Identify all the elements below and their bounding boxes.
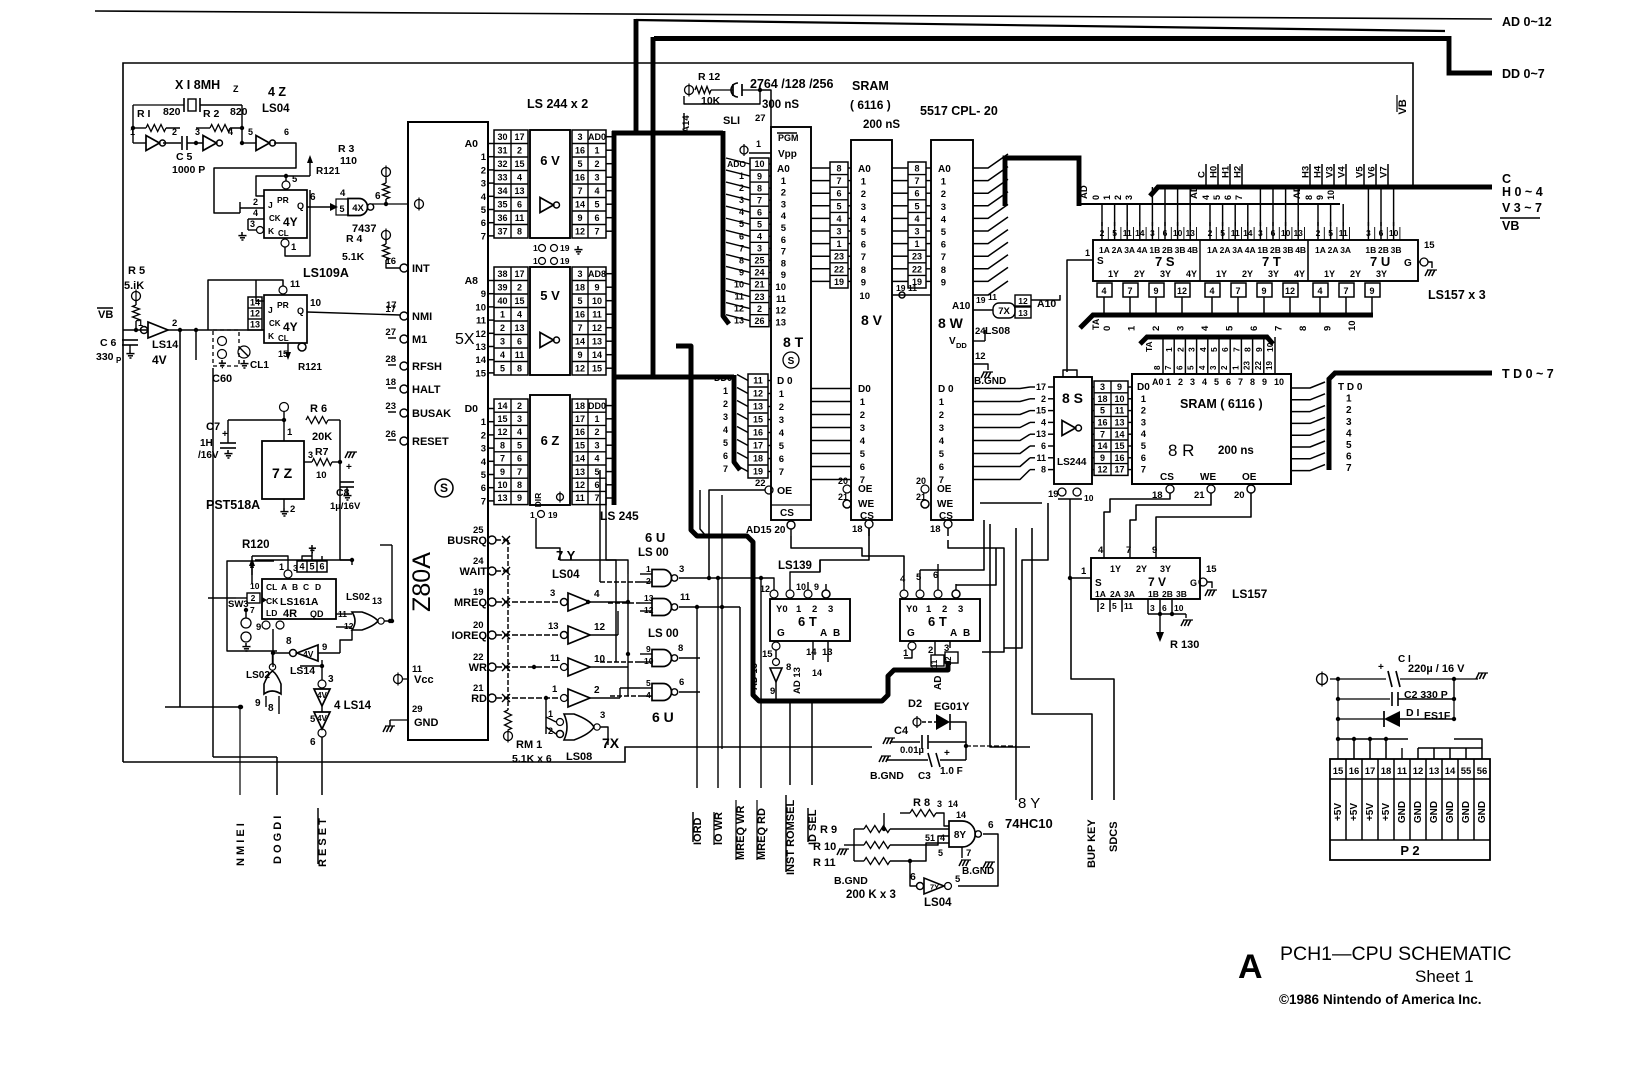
svg-text:1: 1 <box>1081 566 1087 577</box>
svg-text:2: 2 <box>939 410 944 421</box>
svg-text:15: 15 <box>762 649 773 660</box>
svg-text:4B: 4B <box>1187 245 1198 255</box>
svg-text:8: 8 <box>678 643 683 654</box>
svg-text:6: 6 <box>861 240 866 251</box>
svg-text:1: 1 <box>481 152 487 163</box>
svg-text:17: 17 <box>1036 382 1046 392</box>
svg-text:6: 6 <box>517 336 522 346</box>
svg-text:2: 2 <box>517 282 522 292</box>
inverter 7Y ioreq <box>496 634 560 636</box>
svg-text:3A: 3A <box>1340 245 1351 255</box>
LS161 load/clk wires <box>252 556 288 570</box>
bus TD0~7 thick <box>1329 373 1492 470</box>
svg-text:D 0: D 0 <box>938 384 954 395</box>
power rail wires <box>1337 679 1339 759</box>
svg-text:3: 3 <box>517 414 522 424</box>
svg-text:LS04: LS04 <box>552 569 580 581</box>
svg-text:7: 7 <box>1274 326 1285 331</box>
resistor R12 10K <box>685 86 694 95</box>
8T pin 1 Vpp <box>740 146 748 154</box>
svg-text:3Y: 3Y <box>1376 269 1387 279</box>
capacitor C60 <box>213 330 239 366</box>
svg-text:X I 8MH: X I 8MH <box>175 78 220 92</box>
svg-text:LS04: LS04 <box>262 103 290 115</box>
gate 4X 7437 <box>336 199 348 215</box>
svg-text:QD: QD <box>310 609 324 619</box>
svg-text:B: B <box>963 628 970 639</box>
svg-text:6: 6 <box>836 189 841 199</box>
svg-text:2: 2 <box>941 189 946 200</box>
svg-text:6: 6 <box>779 454 784 465</box>
svg-text:2A: 2A <box>1112 245 1123 255</box>
svg-text:C: C <box>303 582 309 592</box>
svg-text:19: 19 <box>753 467 763 477</box>
svg-text:4: 4 <box>1200 325 1211 331</box>
svg-text:6: 6 <box>939 462 944 473</box>
svg-text:12: 12 <box>1413 766 1424 777</box>
svg-text:5: 5 <box>739 219 744 229</box>
svg-text:4 Z: 4 Z <box>268 85 286 99</box>
svg-text:M1: M1 <box>412 334 427 346</box>
svg-text:8 Y: 8 Y <box>1018 795 1040 812</box>
connector P2 <box>1330 759 1490 860</box>
svg-text:2: 2 <box>172 127 177 137</box>
IC 6T decoder 1 <box>770 599 850 641</box>
resistor R121 arrow <box>309 162 311 176</box>
svg-text:3: 3 <box>1124 195 1134 200</box>
svg-text:10: 10 <box>1084 493 1094 503</box>
svg-text:7: 7 <box>836 176 841 186</box>
svg-text:37: 37 <box>497 226 507 236</box>
svg-text:2: 2 <box>860 410 865 421</box>
svg-text:S: S <box>1097 256 1104 267</box>
svg-text:19: 19 <box>1265 361 1274 370</box>
svg-text:7X: 7X <box>998 306 1010 317</box>
svg-text:1: 1 <box>533 243 538 253</box>
svg-text:56: 56 <box>1477 766 1488 777</box>
svg-text:1: 1 <box>594 414 599 424</box>
svg-text:WR: WR <box>469 662 487 674</box>
wire osc out <box>214 143 296 213</box>
svg-text:3B: 3B <box>1283 245 1294 255</box>
svg-text:1: 1 <box>552 684 558 695</box>
svg-text:/16V: /16V <box>198 450 219 461</box>
svg-text:2: 2 <box>481 165 486 176</box>
svg-text:RFSH: RFSH <box>412 361 442 373</box>
svg-text:300 nS: 300 nS <box>762 99 799 111</box>
svg-text:12: 12 <box>250 309 260 319</box>
svg-text:4: 4 <box>1202 377 1207 387</box>
svg-text:Y0: Y0 <box>776 604 788 615</box>
svg-text:1Y: 1Y <box>1324 269 1335 279</box>
resistor RM1 5.1Kx6 <box>505 710 512 730</box>
svg-text:6: 6 <box>319 562 324 572</box>
svg-text:1: 1 <box>914 239 919 249</box>
svg-text:7 T: 7 T <box>1262 254 1281 269</box>
svg-text:4: 4 <box>1198 347 1208 352</box>
svg-text:7: 7 <box>779 467 784 478</box>
wire spare verticals center <box>599 470 601 582</box>
svg-text:2: 2 <box>779 402 784 413</box>
svg-text:S: S <box>440 481 448 495</box>
svg-text:D2: D2 <box>908 698 922 710</box>
svg-text:1A: 1A <box>1099 245 1110 255</box>
svg-text:1: 1 <box>1102 195 1112 200</box>
svg-text:LD: LD <box>266 608 277 618</box>
svg-text:6: 6 <box>910 871 916 883</box>
wire SL1 to 8T <box>684 90 760 104</box>
svg-text:1: 1 <box>287 427 293 438</box>
svg-text:18: 18 <box>753 454 763 464</box>
svg-text:22: 22 <box>755 478 766 489</box>
svg-text:3: 3 <box>577 269 582 279</box>
svg-text:7: 7 <box>594 226 599 236</box>
svg-text:TA: TA <box>1144 341 1154 352</box>
svg-text:4: 4 <box>517 172 522 182</box>
terminal input phi <box>1317 674 1328 685</box>
svg-text:6 V: 6 V <box>540 153 560 168</box>
svg-text:3: 3 <box>836 227 841 237</box>
frame border <box>123 63 1413 762</box>
svg-text:P 2: P 2 <box>1400 843 1419 858</box>
svg-text:4: 4 <box>253 208 258 218</box>
wire FF2 Q to NMI <box>307 312 400 315</box>
svg-text:1: 1 <box>533 256 538 266</box>
svg-text:3Y: 3Y <box>1160 564 1171 574</box>
svg-text:5517 CPL- 20: 5517 CPL- 20 <box>920 104 998 118</box>
svg-text:3: 3 <box>594 440 599 450</box>
svg-text:+5V: +5V <box>1349 803 1360 821</box>
P2 pin risers <box>1353 739 1355 759</box>
svg-text:13: 13 <box>514 323 524 333</box>
svg-text:4V: 4V <box>303 649 314 659</box>
svg-text:AD: AD <box>1079 185 1090 199</box>
svg-text:7 Y: 7 Y <box>556 548 576 563</box>
svg-text:3: 3 <box>941 202 946 213</box>
svg-text:16: 16 <box>753 428 763 438</box>
svg-text:12: 12 <box>575 363 585 373</box>
IC 7V LS157 <box>1091 558 1200 599</box>
svg-text:VB: VB <box>1502 219 1519 233</box>
svg-text:SRAM ( 6116 ): SRAM ( 6116 ) <box>1180 397 1263 411</box>
svg-text:8: 8 <box>941 265 946 276</box>
svg-text:8 W: 8 W <box>938 315 964 331</box>
svg-text:14: 14 <box>475 355 486 366</box>
svg-text:IO WR: IO WR <box>713 812 725 845</box>
svg-text:31: 31 <box>497 145 507 155</box>
svg-text:4: 4 <box>1141 429 1147 440</box>
svg-text:LS 244 x 2: LS 244 x 2 <box>527 97 588 111</box>
svg-text:+: + <box>944 748 950 759</box>
svg-text:4Y: 4Y <box>283 320 298 334</box>
svg-text:2: 2 <box>1113 195 1123 200</box>
inverter 7Y rd <box>496 697 560 699</box>
svg-text:3: 3 <box>594 172 599 182</box>
wire INST ROMSEL vert <box>789 700 791 785</box>
svg-text:2Y: 2Y <box>1242 269 1253 279</box>
svg-text:18: 18 <box>1097 394 1107 404</box>
bus C/H/V thick <box>1150 187 1492 196</box>
svg-text:13: 13 <box>1429 766 1440 777</box>
svg-text:DD: DD <box>956 341 967 350</box>
svg-text:D0: D0 <box>1137 382 1150 393</box>
svg-text:9: 9 <box>1315 195 1325 200</box>
svg-text:15: 15 <box>514 159 524 169</box>
svg-text:6: 6 <box>284 127 289 137</box>
svg-text:GND: GND <box>1429 801 1440 823</box>
wire ID SEL vert <box>811 700 813 785</box>
svg-text:A: A <box>820 628 827 639</box>
svg-text:4V: 4V <box>317 714 327 723</box>
svg-text:6: 6 <box>517 454 522 464</box>
svg-text:9: 9 <box>256 622 261 633</box>
IC 6Z LS245 <box>530 395 570 505</box>
wire A10 row 8V-8W <box>892 294 931 296</box>
svg-text:LS08: LS08 <box>566 751 592 763</box>
svg-text:3A: 3A <box>1124 245 1135 255</box>
svg-text:Vpp: Vpp <box>778 149 797 160</box>
svg-text:4: 4 <box>299 562 304 572</box>
svg-text:10: 10 <box>497 480 507 490</box>
svg-text:8: 8 <box>517 226 522 236</box>
svg-text:+5V: +5V <box>1365 803 1376 821</box>
svg-text:24: 24 <box>473 556 484 567</box>
svg-text:4: 4 <box>836 214 841 224</box>
svg-text:12: 12 <box>575 226 585 236</box>
svg-text:8: 8 <box>1298 326 1309 331</box>
svg-text:16: 16 <box>575 145 585 155</box>
IC 8S LS244 <box>1054 377 1092 484</box>
svg-text:4: 4 <box>594 454 599 464</box>
svg-text:16: 16 <box>1114 453 1124 463</box>
svg-text:8: 8 <box>1041 465 1046 475</box>
svg-text:10: 10 <box>1347 320 1358 331</box>
svg-text:3Y: 3Y <box>1268 269 1279 279</box>
svg-text:6: 6 <box>375 191 381 202</box>
svg-text:4: 4 <box>757 232 762 242</box>
ladder 6V right pins <box>572 130 606 238</box>
svg-text:5: 5 <box>1212 195 1222 200</box>
wire AD0~12 top line <box>95 11 1492 19</box>
svg-text:24: 24 <box>754 268 764 278</box>
svg-text:2: 2 <box>253 197 258 207</box>
svg-text:6 U: 6 U <box>645 530 665 545</box>
svg-text:12: 12 <box>1285 286 1295 296</box>
svg-text:7 U: 7 U <box>1370 254 1390 269</box>
capacitor C6 330p <box>122 339 138 341</box>
svg-text:OE: OE <box>777 485 792 497</box>
svg-text:C3: C3 <box>918 771 931 782</box>
ladder 8W left address <box>908 162 926 288</box>
svg-text:200 nS: 200 nS <box>863 119 900 131</box>
svg-text:B: B <box>833 628 840 639</box>
svg-text:13: 13 <box>514 186 524 196</box>
svg-text:1B: 1B <box>1257 245 1268 255</box>
svg-text:AD 0~12: AD 0~12 <box>1502 15 1552 29</box>
svg-text:2: 2 <box>481 430 486 441</box>
svg-text:35: 35 <box>497 199 507 209</box>
svg-text:A14: A14 <box>681 115 692 133</box>
svg-text:AD: AD <box>933 676 944 690</box>
svg-text:9: 9 <box>757 171 762 181</box>
capacitor CL1 <box>238 346 250 358</box>
svg-text:7: 7 <box>1235 286 1240 296</box>
svg-text:+5V: +5V <box>1381 803 1392 821</box>
svg-text:6: 6 <box>594 480 599 490</box>
svg-text:14: 14 <box>250 298 260 308</box>
svg-text:AD: AD <box>1189 185 1200 199</box>
svg-text:H 0 ~ 4: H 0 ~ 4 <box>1502 185 1543 199</box>
svg-text:LS157 x 3: LS157 x 3 <box>1428 288 1486 302</box>
svg-text:4: 4 <box>914 214 919 224</box>
svg-text:3: 3 <box>781 199 786 210</box>
svg-text:1B: 1B <box>1148 589 1159 599</box>
inverter 7Y wr <box>496 666 560 668</box>
svg-text:4: 4 <box>228 127 233 137</box>
svg-text:5: 5 <box>1187 365 1196 370</box>
svg-text:P: P <box>116 356 122 365</box>
svg-text:4V: 4V <box>152 353 167 367</box>
svg-text:R121: R121 <box>316 166 340 177</box>
bus AD vertical at x614 <box>612 131 617 505</box>
wire FF1 to 4X <box>307 206 336 208</box>
svg-text:23: 23 <box>912 252 922 262</box>
svg-text:3: 3 <box>481 179 486 190</box>
svg-text:GND: GND <box>1461 801 1472 823</box>
svg-text:2Y: 2Y <box>1350 269 1361 279</box>
svg-text:J: J <box>268 305 273 315</box>
svg-text:3: 3 <box>779 415 784 426</box>
svg-text:LS109A: LS109A <box>303 266 349 280</box>
svg-text:39: 39 <box>497 282 507 292</box>
svg-text:1: 1 <box>739 171 744 181</box>
svg-text:3B: 3B <box>1391 245 1402 255</box>
svg-text:7: 7 <box>1141 465 1146 476</box>
svg-text:5: 5 <box>938 848 943 858</box>
svg-text:WE: WE <box>937 499 953 510</box>
svg-text:C: C <box>1502 172 1511 186</box>
svg-text:G: G <box>907 628 915 639</box>
svg-text:4: 4 <box>739 207 744 217</box>
svg-text:8: 8 <box>286 636 292 647</box>
svg-text:110: 110 <box>340 155 357 167</box>
svg-text:B: B <box>292 582 298 592</box>
svg-text:4: 4 <box>1101 286 1106 296</box>
svg-text:5: 5 <box>517 440 522 450</box>
svg-text:5: 5 <box>577 159 582 169</box>
svg-text:4: 4 <box>723 425 728 435</box>
svg-text:8 R: 8 R <box>1168 441 1194 460</box>
svg-text:+: + <box>222 429 228 440</box>
svg-text:2: 2 <box>781 188 786 199</box>
svg-text:AD 13: AD 13 <box>792 667 803 694</box>
svg-text:12: 12 <box>575 480 585 490</box>
svg-text:2B: 2B <box>1162 589 1173 599</box>
svg-text:7: 7 <box>1231 347 1241 352</box>
svg-text:CS: CS <box>1160 472 1174 483</box>
svg-text:22: 22 <box>1254 361 1263 370</box>
svg-text:11: 11 <box>1124 601 1133 611</box>
svg-text:22: 22 <box>834 264 844 274</box>
svg-text:1A: 1A <box>1207 245 1218 255</box>
svg-text:V: V <box>949 336 956 347</box>
svg-text:1H: 1H <box>200 438 213 449</box>
svg-text:7: 7 <box>757 195 762 205</box>
bus AD vertical from top <box>634 19 639 133</box>
svg-text:3: 3 <box>328 674 334 685</box>
svg-text:17: 17 <box>575 414 585 424</box>
svg-text:6 T: 6 T <box>928 614 947 629</box>
svg-text:LS14: LS14 <box>290 665 315 677</box>
svg-text:1: 1 <box>1141 394 1147 405</box>
IC 8T EPROM <box>771 127 811 520</box>
inverter 4V LS14 left <box>123 329 148 331</box>
svg-text:A0: A0 <box>465 138 479 150</box>
bus AD thick feeder <box>636 20 1445 31</box>
svg-text:3: 3 <box>860 423 865 434</box>
svg-text:0: 0 <box>1102 326 1113 331</box>
svg-text:5: 5 <box>1141 441 1147 452</box>
svg-text:6: 6 <box>1249 326 1260 331</box>
svg-text:4: 4 <box>939 436 945 447</box>
svg-text:8: 8 <box>914 164 919 174</box>
wire 8W address fan to AD bus <box>973 154 1008 168</box>
svg-text:B.GND: B.GND <box>870 770 904 782</box>
svg-text:IOREQ: IOREQ <box>452 630 488 642</box>
svg-text:4B: 4B <box>1295 245 1306 255</box>
svg-text:11: 11 <box>476 316 487 327</box>
svg-text:9: 9 <box>739 267 744 277</box>
svg-text:2: 2 <box>1178 377 1183 387</box>
svg-text:6: 6 <box>860 462 865 473</box>
svg-text:AD0: AD0 <box>588 132 606 142</box>
svg-text:2: 2 <box>251 593 256 603</box>
svg-text:3: 3 <box>679 564 684 575</box>
svg-text:5: 5 <box>594 199 599 209</box>
svg-text:4: 4 <box>481 457 487 468</box>
svg-text:3: 3 <box>195 127 200 137</box>
svg-text:14: 14 <box>812 668 822 678</box>
svg-text:6 T: 6 T <box>798 614 817 629</box>
wire IOWR <box>717 578 719 788</box>
svg-text:5: 5 <box>309 562 314 572</box>
svg-text:15: 15 <box>475 368 486 379</box>
svg-text:4: 4 <box>594 589 600 600</box>
svg-text:55: 55 <box>1461 766 1472 777</box>
svg-text:20K: 20K <box>312 431 332 443</box>
svg-text:4: 4 <box>1201 195 1211 200</box>
Z80A right control pins <box>488 536 496 544</box>
svg-text:10: 10 <box>775 282 786 293</box>
svg-text:A: A <box>950 628 957 639</box>
svg-text:9: 9 <box>517 493 522 503</box>
svg-text:3: 3 <box>550 588 555 599</box>
wire OE net vertical x722 <box>721 495 723 749</box>
svg-text:C60: C60 <box>212 373 232 385</box>
svg-text:13: 13 <box>548 621 559 632</box>
svg-text:BUSRQ: BUSRQ <box>447 535 487 547</box>
svg-text:5: 5 <box>481 470 487 481</box>
wire 8R CS/WE/OE to 7V <box>1104 493 1170 540</box>
svg-text:8: 8 <box>1153 365 1162 370</box>
svg-text:10: 10 <box>796 582 806 592</box>
svg-text:5: 5 <box>500 363 505 373</box>
wire AD14 vertical x700 <box>700 490 706 536</box>
svg-text:1: 1 <box>481 417 487 428</box>
svg-text:3B: 3B <box>1175 245 1186 255</box>
svg-text:A: A <box>281 582 287 592</box>
svg-text:S: S <box>1095 578 1102 589</box>
